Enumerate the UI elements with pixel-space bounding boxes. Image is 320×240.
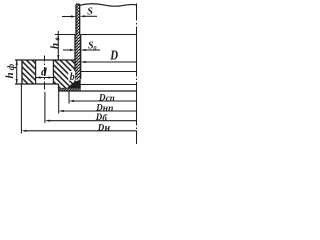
- weld seam (blackened) at nozzle end: [67, 80, 81, 89]
- flange raised sealing face hatch: [59, 84, 81, 89]
- mating face line under gasket (to axis): [59, 90, 137, 92]
- svg-text:b: b: [70, 72, 75, 83]
- dimension S: left arrow: [62, 16, 72, 18]
- label D: [109, 47, 118, 63]
- inner bore line (to axis): [81, 71, 137, 73]
- nozzle wall outline: [75, 35, 81, 85]
- dimension hF: line with arrows: [16, 60, 18, 84]
- pipe break line (wavy): [80, 4, 137, 6]
- dimension S0: left arrow: [63, 49, 71, 51]
- butt weld joint line (right, to axis): [81, 34, 137, 36]
- pipe wall (thickness S) hatch: [76, 4, 80, 34]
- dimension D: line with left arrow: [85, 61, 136, 63]
- svg-text:h: h: [49, 43, 61, 49]
- nozzle wall (thickness S0) hatch: [75, 35, 81, 80]
- bolt hole edges: [36, 60, 54, 84]
- centerline (pipe axis, dash-dot): [136, 4, 138, 145]
- dimension Dnp: line with left arrow: [63, 110, 136, 112]
- bolt hole axis (dash-dot): [44, 56, 46, 90]
- flange ring left block hatch: [22, 60, 36, 84]
- gasket (dense section): [59, 88, 81, 91]
- svg-text:D: D: [98, 92, 106, 102]
- dimension S0: right arrow: [85, 49, 100, 51]
- dimension Dn: extension line: [20, 84, 22, 134]
- dimension Dsp: extension line: [68, 91, 70, 104]
- svg-text:сп: сп: [106, 93, 115, 103]
- dimension d: line and outward arrows: [36, 77, 54, 79]
- pipe wall outline: [76, 4, 80, 34]
- dimension Db: line with left arrow: [49, 120, 136, 122]
- svg-text:S: S: [87, 7, 93, 18]
- flange outline: [15, 60, 81, 89]
- gasket left edge: [58, 89, 60, 92]
- dimension hB: line with arrows: [57, 31, 59, 60]
- dimension S: right arrow: [84, 15, 97, 17]
- svg-text:б: б: [102, 113, 107, 123]
- dimension Dn: line with left arrow: [26, 130, 137, 132]
- svg-text:d: d: [41, 67, 47, 79]
- svg-text:ф: ф: [6, 63, 16, 70]
- svg-text:h: h: [4, 72, 16, 78]
- label b with halo: [68, 71, 75, 81]
- dimension Dnp: extension line: [58, 91, 60, 114]
- svg-text:D: D: [97, 122, 105, 132]
- butt weld joint line (left of pipe): [55, 34, 75, 36]
- dimension Db: extension line: [44, 92, 46, 123]
- svg-text:н: н: [105, 123, 111, 134]
- flange ring right block hatch: [53, 60, 75, 84]
- svg-text:0: 0: [93, 45, 97, 52]
- flange bottom face line extended to axis: [81, 84, 137, 86]
- dimension Dsp: line with left arrow: [74, 100, 137, 102]
- svg-text:в: в: [53, 37, 61, 40]
- svg-text:D: D: [109, 47, 118, 63]
